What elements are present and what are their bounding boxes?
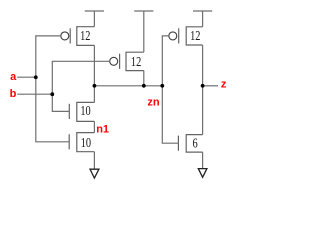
wire b input (17, 93, 52, 95)
nmos M6 width 6 (178, 135, 202, 153)
wire a input (17, 76, 36, 78)
svg-text:zn: zn (147, 97, 160, 109)
pmos M2 width 12 (110, 52, 144, 70)
ground GND1 (90, 169, 99, 178)
wire M3 drain down to z (202, 45, 204, 86)
node junction zn mid (142, 84, 146, 88)
svg-text:b: b (10, 88, 17, 100)
pmos M3 width 12 (169, 27, 203, 45)
wire a down to M5 gate (36, 77, 69, 142)
wire M5 source to ground (93, 152, 95, 170)
wire z to M6 drain (202, 86, 204, 135)
wire M6 source to ground (202, 152, 204, 169)
wire z output (203, 85, 218, 87)
nmos M5 width 10 (69, 133, 94, 152)
wire zn horizontal (94, 85, 162, 87)
svg-text:12: 12 (80, 27, 90, 43)
svg-text:n1: n1 (96, 123, 109, 135)
wire b up to M2 gate (52, 61, 109, 94)
wire zn to M4 drain (93, 86, 95, 103)
wire b down to M4 gate (52, 94, 69, 111)
wire M2 drain down to zn (143, 71, 145, 86)
svg-text:12: 12 (131, 53, 141, 69)
wire node n1 between M4 and M5 (93, 121, 95, 132)
wire a up to M1 gate (36, 36, 61, 77)
wire zn down to M6 gate (162, 86, 178, 143)
wire zn up to M3 gate (162, 36, 169, 86)
nmos M4 width 10 (69, 102, 94, 121)
pmos M1 width 12 (61, 27, 95, 46)
ground GND2 (198, 169, 207, 178)
svg-text:12: 12 (190, 27, 200, 43)
svg-text:a: a (10, 71, 17, 83)
svg-text:10: 10 (80, 103, 90, 119)
svg-text:10: 10 (81, 135, 91, 151)
svg-text:6: 6 (193, 135, 198, 151)
node junction z (201, 84, 205, 88)
node junction zn right (160, 84, 164, 88)
wire M1 drain down to zn (93, 45, 95, 85)
vdd rail T2 (134, 11, 153, 52)
vdd rail T3 (193, 11, 212, 27)
node junction b (50, 92, 54, 96)
vdd rail T1 (85, 11, 104, 27)
node junction a (34, 75, 38, 79)
svg-text:z: z (221, 79, 227, 91)
node junction zn left (93, 84, 97, 88)
